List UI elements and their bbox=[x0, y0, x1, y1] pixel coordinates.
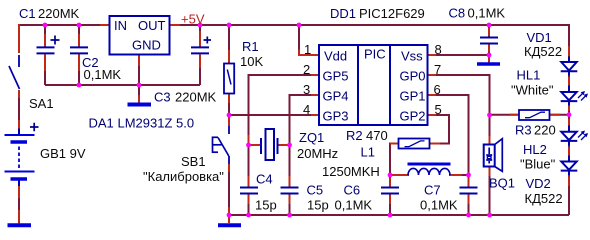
svg-text:+5V: +5V bbox=[181, 12, 205, 27]
svg-text:"Blue": "Blue" bbox=[520, 157, 556, 172]
svg-text:L1: L1 bbox=[361, 145, 375, 160]
svg-text:Vdd: Vdd bbox=[324, 49, 347, 64]
svg-text:C7: C7 bbox=[424, 183, 441, 198]
svg-text:8: 8 bbox=[435, 42, 442, 57]
svg-text:BQ1: BQ1 bbox=[489, 176, 515, 191]
svg-text:6: 6 bbox=[434, 82, 441, 97]
svg-text:20MHz: 20MHz bbox=[297, 146, 338, 161]
svg-text:GP1: GP1 bbox=[400, 89, 426, 104]
svg-text:КД522: КД522 bbox=[524, 44, 562, 59]
svg-text:15p: 15p bbox=[255, 198, 277, 213]
svg-text:R2: R2 bbox=[346, 128, 363, 143]
svg-text:C8: C8 bbox=[449, 6, 466, 21]
svg-text:IN: IN bbox=[114, 18, 127, 33]
svg-text:0,1MK: 0,1MK bbox=[84, 67, 122, 82]
svg-text:4: 4 bbox=[303, 102, 310, 117]
svg-text:0,1MK: 0,1MK bbox=[420, 198, 458, 213]
svg-text:GB1 9V: GB1 9V bbox=[40, 146, 86, 161]
svg-text:R1: R1 bbox=[242, 39, 259, 54]
svg-text:Vss: Vss bbox=[401, 49, 423, 64]
svg-text:GP3: GP3 bbox=[323, 109, 349, 124]
svg-text:C1: C1 bbox=[19, 6, 36, 21]
svg-text:GND: GND bbox=[132, 38, 161, 53]
svg-text:15p: 15p bbox=[307, 198, 329, 213]
svg-text:C6: C6 bbox=[344, 183, 361, 198]
svg-text:DA1: DA1 bbox=[89, 116, 114, 131]
svg-text:C5: C5 bbox=[307, 183, 324, 198]
svg-text:LM2931Z 5.0: LM2931Z 5.0 bbox=[118, 116, 195, 131]
svg-text:"Калибровка": "Калибровка" bbox=[143, 169, 224, 184]
svg-text:470: 470 bbox=[366, 128, 388, 143]
svg-text:1: 1 bbox=[304, 42, 311, 57]
svg-text:GP5: GP5 bbox=[323, 69, 349, 84]
svg-text:10K: 10K bbox=[240, 54, 263, 69]
svg-text:DD1: DD1 bbox=[330, 6, 356, 21]
svg-text:5: 5 bbox=[435, 102, 442, 117]
svg-text:GP4: GP4 bbox=[323, 89, 349, 104]
svg-text:SA1: SA1 bbox=[29, 96, 54, 111]
svg-text:"White": "White" bbox=[511, 83, 554, 98]
svg-text:PIC: PIC bbox=[364, 47, 386, 62]
svg-text:R3: R3 bbox=[515, 123, 532, 138]
svg-text:HL1: HL1 bbox=[517, 68, 541, 83]
svg-text:HL2: HL2 bbox=[523, 142, 547, 157]
svg-text:VD2: VD2 bbox=[526, 176, 551, 191]
svg-text:SB1: SB1 bbox=[181, 154, 206, 169]
svg-text:КД522: КД522 bbox=[525, 191, 563, 206]
svg-text:220: 220 bbox=[534, 123, 556, 138]
svg-text:7: 7 bbox=[434, 62, 441, 77]
svg-text:OUT: OUT bbox=[138, 18, 166, 33]
svg-text:C3: C3 bbox=[154, 90, 171, 105]
svg-text:PIC12F629: PIC12F629 bbox=[359, 6, 425, 21]
svg-text:0,1MK: 0,1MK bbox=[335, 198, 373, 213]
svg-text:220MK: 220MK bbox=[38, 6, 80, 21]
svg-text:3: 3 bbox=[303, 82, 310, 97]
svg-text:GP0: GP0 bbox=[400, 69, 426, 84]
svg-text:GP2: GP2 bbox=[400, 109, 426, 124]
svg-text:2: 2 bbox=[303, 62, 310, 77]
svg-text:C4: C4 bbox=[256, 172, 273, 187]
svg-text:VD1: VD1 bbox=[527, 30, 552, 45]
svg-text:1250MKH: 1250MKH bbox=[322, 164, 380, 179]
svg-text:220MK: 220MK bbox=[175, 90, 217, 105]
svg-text:0,1MK: 0,1MK bbox=[468, 6, 506, 21]
svg-text:ZQ1: ZQ1 bbox=[299, 130, 324, 145]
